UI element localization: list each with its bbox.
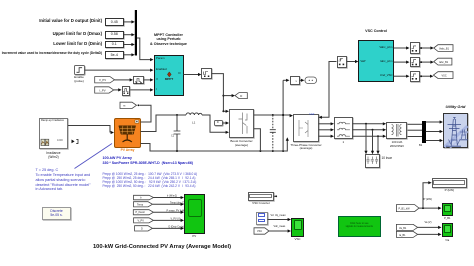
goto tag Vdc: [305, 77, 317, 84]
main title: [37, 244, 287, 251]
from tag V_PV scope: [134, 218, 154, 223]
cap bank icon: [367, 157, 379, 164]
boost converter label: [226, 139, 257, 147]
wire VSC Uref out: [394, 75, 410, 78]
VIa scope label: [442, 239, 454, 242]
wire to goto Vabc_B1: [420, 46, 434, 49]
wire choke to transformer B: [353, 128, 387, 131]
capacitor bank block: [365, 154, 380, 168]
vdc measurement wire: [282, 79, 289, 151]
wire Uref to converter: [319, 62, 337, 119]
wire Va_B1 to scope: [418, 226, 442, 229]
wire PV plus to rail: [141, 114, 187, 132]
VSC control title: [356, 29, 396, 33]
svg-text:Temp: Temp: [137, 203, 144, 206]
MPPT icon: [167, 72, 171, 77]
from tag Ptheori: [133, 210, 153, 215]
svg-text:V_PV (V): V_PV (V): [171, 218, 181, 221]
wire transformer to bus C: [408, 136, 423, 138]
display P kW block: [432, 178, 467, 188]
riser to cap bank A: [364, 124, 367, 154]
wire boost plus out: [254, 114, 293, 117]
rate transition UP: [337, 56, 348, 68]
svg-text:Ia_B1: Ia_B1: [399, 234, 406, 237]
transformer block: [386, 122, 407, 140]
from tag I_PV: [95, 87, 114, 93]
svg-text:P_B1_kW: P_B1_kW: [399, 207, 411, 210]
wire bus to grid C: [426, 139, 443, 142]
rate transition icon 2: [412, 60, 422, 66]
rate transition Uref: [410, 71, 421, 82]
svg-text:L1: L1: [192, 121, 196, 125]
wire choke to transformer A: [353, 122, 387, 125]
wire Ptheori to scope: [153, 209, 185, 213]
three-phase converter label: [288, 144, 324, 152]
enable step icon: [77, 68, 83, 73]
svg-text:Va_B1: Va_B1: [399, 227, 407, 230]
svg-text:D: D: [141, 227, 143, 230]
svg-text:Ir: Ir: [140, 197, 142, 200]
wire transformer to bus B: [408, 129, 423, 131]
svg-text:Vabc_B1: Vabc_B1: [439, 47, 450, 50]
three-phase converter block: [293, 114, 319, 142]
wire boost minus out: [254, 129, 260, 151]
irradiance source block: [39, 118, 68, 149]
goto tag D source box: [214, 120, 223, 127]
constant Dinit: [105, 18, 125, 26]
utility grid title: [437, 105, 474, 110]
PV scope label: [184, 235, 205, 238]
bus B1: [422, 121, 426, 144]
svg-text:V_PV: V_PV: [99, 78, 106, 82]
PV panel icon: [119, 120, 139, 142]
wire choke to transformer C: [353, 135, 387, 138]
display P kW label: [432, 189, 467, 193]
from tag P_B1_kW: [396, 205, 419, 212]
blue annotation PV array specs: [103, 156, 193, 165]
wire Dmax to mux: [124, 33, 135, 36]
choke label: [334, 141, 353, 144]
svg-text:VSC: VSC: [442, 74, 447, 77]
wire P_B1 to scope and display: [419, 181, 442, 210]
svg-text:P mean_PV (kW): P mean_PV (kW): [167, 209, 186, 212]
dc link capacitor: [270, 115, 276, 151]
wire D to scope: [152, 226, 184, 230]
wire Dmin to mux: [124, 43, 135, 46]
three-phase wire B: [319, 128, 335, 131]
rate transition D: [201, 68, 211, 78]
capacitor bank label: [382, 157, 392, 161]
utility grid block: [443, 113, 468, 148]
svg-text:I_PV: I_PV: [99, 88, 105, 92]
wire V_PV to hold: [115, 78, 134, 81]
MPPT controller block: [154, 55, 184, 96]
boost igbt icon: [239, 113, 248, 135]
PV array block: [114, 118, 141, 148]
irradiance thumbnails icon: [41, 139, 49, 145]
capacitor C1: [171, 115, 180, 151]
blue annotation temperature note: [36, 168, 91, 192]
rate transition UP icon: [339, 59, 345, 66]
svg-text:Iabc_B1: Iabc_B1: [439, 61, 449, 64]
from tag Ir: [134, 195, 154, 200]
svg-text:C1: C1: [171, 135, 175, 138]
constant Dmax: [105, 31, 125, 39]
P_B1 scope label: [442, 217, 454, 220]
wire VSC tag to scope: [269, 229, 291, 232]
annotation label Dmax: [53, 31, 102, 36]
inductor L1: [186, 113, 202, 125]
PV scope block: [184, 194, 205, 234]
transformer coils icon: [392, 124, 402, 137]
wire MPPT D out: [184, 73, 202, 76]
PV array label: [111, 149, 144, 153]
wire rate transition to boost D: [212, 74, 235, 113]
mini display arrow: [72, 139, 79, 143]
rate transition D icon: [204, 72, 210, 78]
wire VSC Vabc out: [394, 46, 410, 49]
riser to cap bank C: [376, 136, 379, 154]
from tag Temp: [134, 202, 153, 207]
VSC inverter display block: [248, 192, 274, 201]
VSC inverter stub: [274, 195, 277, 197]
VSC control block: [358, 40, 393, 82]
wire hold to MPPT V: [144, 78, 154, 81]
enable label: [68, 76, 90, 84]
VSC scope block: [291, 218, 304, 238]
zero-order hold A: [133, 76, 144, 85]
measurements green block: [338, 216, 381, 237]
wire from tag D to boost: [223, 121, 230, 124]
inverter igbt icon: [299, 120, 308, 137]
wire label Vd mean: [271, 215, 286, 218]
vdc measurement block: [290, 76, 300, 85]
hold B icon: [123, 89, 128, 94]
mux: [135, 10, 137, 56]
wire VSC Iabc out: [394, 61, 410, 64]
svg-text:V_PV: V_PV: [138, 219, 145, 222]
wire bus to grid B: [426, 130, 443, 133]
enable pulse source block: [74, 65, 85, 75]
wire PV minus bottom rail: [141, 137, 289, 152]
goto tag VSC: [433, 72, 453, 79]
wire Temp to scope: [152, 202, 184, 206]
irradiance label: [38, 151, 69, 159]
wire Vdq to VSC scope: [268, 218, 292, 221]
riser to cap bank B: [371, 130, 374, 154]
wire label Va V: [425, 222, 432, 225]
from tag Ia_B1: [396, 231, 417, 237]
wire PV m to tag: [138, 104, 152, 122]
wire I_PV to hold: [114, 88, 122, 91]
wire bus to grid A: [426, 120, 443, 123]
wire V_PV to scope: [153, 218, 184, 222]
svg-text:VSC: VSC: [257, 230, 262, 233]
choke coils icon: [337, 122, 350, 136]
from tag D scope: [135, 226, 153, 231]
VIa scope block: [442, 223, 454, 238]
three-phase wire C: [319, 135, 335, 138]
wire label P kW: [424, 198, 433, 201]
goto tag m: [120, 102, 137, 108]
VSC scope label: [291, 238, 304, 241]
rate transition Iabc: [410, 57, 421, 67]
wire DeltaD to mux: [124, 53, 135, 56]
annotation label DeltaD: [2, 52, 102, 56]
choke RL block: [334, 117, 353, 139]
annotation label Dinit: [39, 18, 102, 23]
wire v to goto Vdc: [300, 79, 305, 82]
wire transformer to bus A: [408, 123, 423, 125]
from tag V_PV: [95, 77, 115, 83]
constant Dmin: [105, 41, 125, 49]
constant DeltaD: [105, 51, 125, 59]
wire label Vdc meas: [274, 226, 286, 229]
goto tag D: [235, 93, 247, 99]
svg-text:Ir (W/m2): Ir (W/m2): [167, 195, 177, 198]
VSC inverter label: [246, 202, 276, 206]
utility grid towers icon: [445, 118, 469, 149]
wire L1 to boost: [202, 115, 229, 134]
wire Ia_B1 to scope: [418, 233, 442, 236]
wire to goto VSC: [420, 75, 433, 78]
wire Dinit to mux: [124, 20, 135, 23]
transformer label: [383, 141, 411, 149]
boost converter block: [229, 109, 254, 138]
wire to goto Iabc_B1: [420, 61, 434, 64]
from tag Va_B1: [396, 224, 417, 230]
svg-text:D: D: [240, 94, 242, 98]
blue pointer line: [75, 144, 113, 169]
wire UP to VSC control: [347, 60, 358, 63]
zero-order hold B: [122, 86, 131, 96]
svg-text:Temp (deg C): Temp (deg C): [170, 202, 185, 205]
from tag VSC bottom: [254, 228, 269, 234]
goto tag Iabc_B1: [434, 58, 452, 65]
goto tag Vabc_B1: [434, 45, 453, 52]
annotation label Dmin: [53, 41, 102, 46]
powergui block: [42, 207, 72, 220]
wire enable to MPPT: [85, 69, 154, 72]
svg-text:P_theori: P_theori: [136, 211, 146, 214]
MPPT controller title: [138, 33, 199, 47]
P_B1 scope block: [442, 203, 454, 216]
rate transition icon 3: [412, 74, 422, 80]
hold A icon: [135, 79, 142, 84]
wire hold to MPPT I: [130, 88, 153, 91]
wire mux to MPPT Param: [137, 38, 154, 61]
svg-text:D (Duty Cycle): D (Duty Cycle): [169, 226, 185, 229]
wire Ir to scope: [154, 195, 185, 199]
rate transition Vabc: [410, 42, 421, 53]
wire irradiance to PV: [68, 126, 114, 135]
rate transition icon 1: [412, 46, 422, 52]
svg-text:UP: UP: [339, 59, 343, 61]
Vdq selector block: [256, 212, 268, 225]
three-phase wire A: [319, 122, 335, 125]
